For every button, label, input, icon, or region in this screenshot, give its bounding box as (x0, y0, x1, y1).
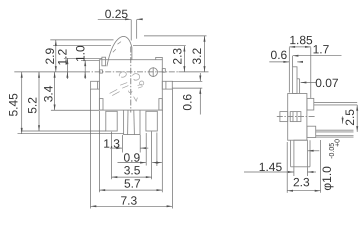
svg-text:7.3: 7.3 (120, 194, 137, 208)
svg-text:1.3: 1.3 (103, 137, 120, 151)
svg-text:5.45: 5.45 (7, 93, 21, 117)
svg-text:-0.05: -0.05 (329, 143, 336, 159)
svg-text:1.2: 1.2 (56, 48, 70, 65)
svg-text:1.7: 1.7 (313, 42, 330, 56)
svg-text:1.0: 1.0 (74, 45, 88, 62)
svg-text:2.3: 2.3 (171, 48, 185, 65)
svg-text:1.85: 1.85 (289, 33, 313, 47)
svg-text:0.25: 0.25 (105, 7, 129, 21)
svg-text:1.45: 1.45 (259, 160, 283, 174)
svg-text:5.2: 5.2 (25, 97, 39, 114)
svg-text:2.3: 2.3 (293, 175, 310, 189)
svg-text:5.7: 5.7 (124, 177, 141, 191)
svg-text:3.2: 3.2 (190, 47, 204, 64)
svg-text:3.4: 3.4 (41, 85, 55, 102)
svg-text:φ1.0: φ1.0 (320, 166, 334, 191)
svg-text:0.6: 0.6 (271, 48, 288, 62)
svg-text:0.6: 0.6 (181, 94, 195, 111)
svg-text:3.5: 3.5 (124, 163, 141, 177)
svg-text:2.5: 2.5 (343, 109, 357, 126)
svg-text:0.07: 0.07 (315, 76, 339, 90)
